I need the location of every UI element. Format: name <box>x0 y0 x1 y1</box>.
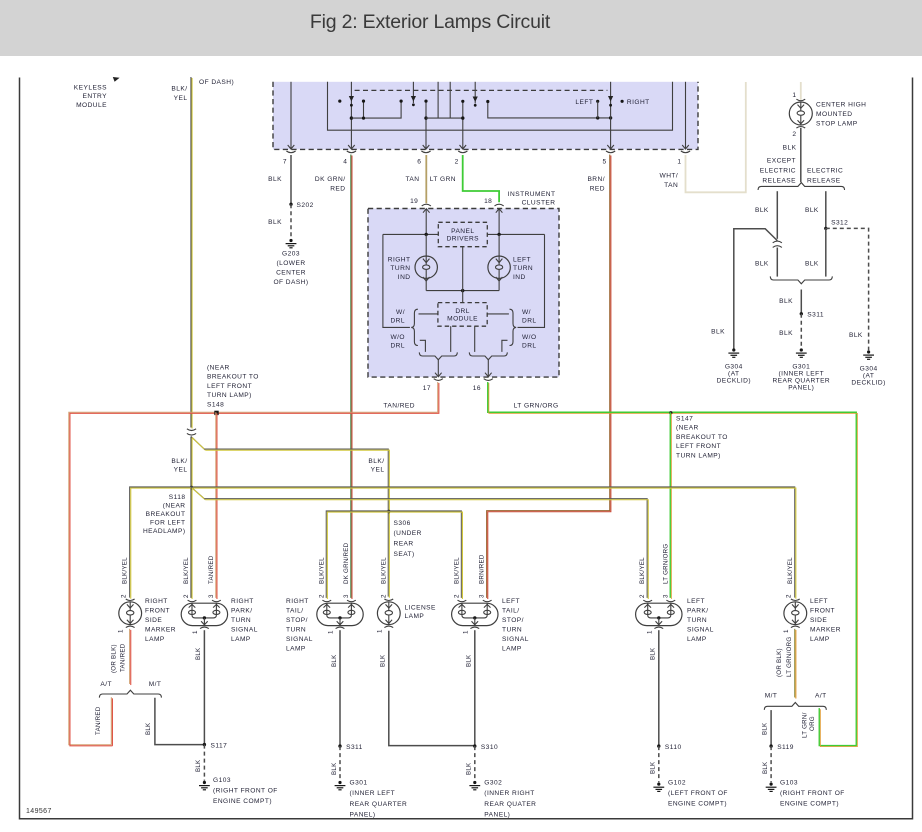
svg-text:HEADLAMP): HEADLAMP) <box>143 528 186 535</box>
svg-text:RIGHT: RIGHT <box>145 598 168 605</box>
svg-text:DRIVERS: DRIVERS <box>447 236 480 243</box>
wire BLK right park to S117 <box>203 630 205 744</box>
svg-text:REAR: REAR <box>394 541 414 548</box>
ground G301 <box>335 781 346 790</box>
svg-text:ORG: ORG <box>809 716 816 731</box>
svg-text:RED: RED <box>330 185 345 192</box>
wire BLK pin7 to S202 <box>290 155 292 204</box>
label BLK above G203 <box>268 219 282 226</box>
svg-text:REAR QUARTER: REAR QUARTER <box>772 377 830 384</box>
wire LT GRN pin2 to cluster pin18 <box>463 155 499 202</box>
S306 label <box>394 520 422 558</box>
svg-text:STOP/: STOP/ <box>502 617 524 624</box>
cluster pin 17 exit <box>434 373 443 381</box>
wire pin7 through box <box>290 82 292 149</box>
svg-text:BLK: BLK <box>268 219 282 226</box>
svg-text:PANEL): PANEL) <box>788 384 814 391</box>
svg-text:S147: S147 <box>676 416 693 423</box>
svg-text:G302: G302 <box>484 780 502 787</box>
ground G102 <box>653 783 664 792</box>
RIGHT FRONT SIDE MARKER label <box>145 598 176 643</box>
lamp LEFT PARK/TURN SIGNAL <box>636 600 682 628</box>
svg-text:ELECTRIC: ELECTRIC <box>760 168 796 175</box>
wire BLK/YEL keyless module down <box>190 77 192 428</box>
svg-text:SEAT): SEAT) <box>394 551 415 558</box>
svg-text:CLUSTER: CLUSTER <box>522 200 556 207</box>
title bar <box>0 0 922 56</box>
svg-text:BLK/YEL: BLK/YEL <box>183 557 190 584</box>
svg-text:TURN: TURN <box>513 265 533 272</box>
svg-text:BLK/: BLK/ <box>171 458 187 465</box>
LICENSE LAMP label <box>405 605 437 620</box>
svg-text:BREAKOUT: BREAKOUT <box>146 511 186 518</box>
svg-text:S202: S202 <box>297 202 314 209</box>
wire BLK dashed to G103 right <box>203 745 205 781</box>
svg-text:LEFT FRONT: LEFT FRONT <box>676 443 721 450</box>
interior stub arrow wire <box>474 82 476 104</box>
svg-text:CENTER HIGH: CENTER HIGH <box>816 102 866 109</box>
svg-text:SIDE: SIDE <box>145 617 162 624</box>
wire BLK dashed to G102 <box>658 746 660 782</box>
svg-text:1: 1 <box>463 630 470 634</box>
inner solid rectangle <box>328 82 673 130</box>
svg-text:TAN/RED: TAN/RED <box>208 555 215 584</box>
RIGHT node <box>621 100 624 103</box>
svg-text:BLK: BLK <box>195 759 202 772</box>
splice S117 <box>203 743 206 746</box>
svg-text:BRN/RED: BRN/RED <box>479 554 486 584</box>
svg-text:(UNDER: (UNDER <box>394 530 422 537</box>
svg-text:5: 5 <box>602 159 606 166</box>
svg-text:(RIGHT FRONT OF: (RIGHT FRONT OF <box>780 790 845 797</box>
S118 diagonal <box>191 487 204 499</box>
wire TAN/RED pin17 bus <box>69 382 438 745</box>
G304 tap wire <box>734 229 778 350</box>
svg-text:IND: IND <box>398 274 411 281</box>
svg-text:OF DASH): OF DASH) <box>199 79 234 86</box>
wire pin4 interior <box>350 82 352 149</box>
svg-text:(INNER RIGHT: (INNER RIGHT <box>484 790 534 797</box>
svg-text:(NEAR: (NEAR <box>676 425 699 432</box>
svg-text:S118: S118 <box>169 494 186 501</box>
svg-text:BLK: BLK <box>783 145 797 152</box>
cluster pin 16 exit <box>484 373 493 381</box>
release split brace <box>758 183 845 190</box>
svg-text:MODULE: MODULE <box>447 315 478 322</box>
svg-text:S310: S310 <box>481 744 498 751</box>
svg-text:3: 3 <box>208 594 215 598</box>
svg-text:TURN LAMP): TURN LAMP) <box>676 452 721 459</box>
splice S202 <box>289 203 292 206</box>
wire TAN/RED S148 branch to right park lamp <box>215 412 217 598</box>
svg-text:LAMP: LAMP <box>502 646 522 653</box>
svg-text:149567: 149567 <box>26 808 52 815</box>
panel drivers to DRL stub <box>462 247 464 303</box>
release merge brace <box>770 276 832 283</box>
wire LT GRN/ORG pin16 bus <box>488 382 857 746</box>
svg-text:S312: S312 <box>831 220 848 227</box>
A/T M/T split right side <box>99 690 161 697</box>
wire WHT/TAN to stop lamp <box>800 82 802 100</box>
DRL MODULE box <box>438 303 487 327</box>
S147 breakout label <box>676 416 728 460</box>
wire BLK M/T branch right <box>770 710 772 746</box>
svg-text:TURN: TURN <box>502 627 522 634</box>
wire BLK/YEL bus to license feed <box>204 449 388 597</box>
svg-text:FRONT: FRONT <box>145 608 170 615</box>
interior bus B2 <box>488 102 611 118</box>
wire LT GRN/ORG S147 branch to left park lamp <box>669 412 671 598</box>
EXCEPT ELECTRIC RELEASE label <box>760 158 796 185</box>
svg-text:2: 2 <box>792 131 796 138</box>
M/T A/T split left side <box>764 703 826 710</box>
svg-text:G102: G102 <box>668 780 686 787</box>
left option brace <box>411 309 418 345</box>
wire BLK except-release branch <box>776 191 778 239</box>
svg-text:3: 3 <box>662 594 669 598</box>
svg-text:BLK: BLK <box>849 332 863 339</box>
right turn ind feed <box>425 234 427 256</box>
svg-text:2: 2 <box>318 594 325 598</box>
svg-text:LICENSE: LICENSE <box>405 605 437 612</box>
RIGHT TURN IND lamp <box>415 256 437 281</box>
lamp CENTER HIGH MOUNTED STOP <box>789 99 812 128</box>
svg-text:BLK/YEL: BLK/YEL <box>787 557 794 584</box>
svg-text:LT GRN/ORG: LT GRN/ORG <box>514 402 559 409</box>
svg-text:PANEL): PANEL) <box>350 811 376 818</box>
label BLK/YEL mid <box>171 458 187 474</box>
svg-text:G203: G203 <box>282 251 300 258</box>
LEFT FRONT SIDE MARKER label <box>810 598 841 643</box>
svg-text:MARKER: MARKER <box>810 627 841 634</box>
label LT GRN <box>430 176 456 183</box>
svg-text:1: 1 <box>376 629 383 633</box>
lamp RIGHT FRONT SIDE MARKER <box>119 599 142 628</box>
cluster top bus <box>383 233 438 235</box>
svg-text:BLK/YEL: BLK/YEL <box>380 557 387 584</box>
svg-text:PARK/: PARK/ <box>231 608 253 615</box>
ground G304 right <box>863 350 874 359</box>
svg-text:2: 2 <box>121 594 128 598</box>
svg-text:DRL: DRL <box>522 318 537 325</box>
pin 17 stub <box>437 360 439 377</box>
svg-text:(OR BLK): (OR BLK) <box>110 644 117 673</box>
label BLK pin7 <box>268 176 282 183</box>
LEFT PARK/TURN label <box>687 598 714 643</box>
svg-text:RED: RED <box>590 185 605 192</box>
svg-text:YEL: YEL <box>174 95 188 102</box>
svg-text:TAN/RED: TAN/RED <box>383 402 415 409</box>
cluster pin19 shaft <box>425 210 427 235</box>
cluster pin 18 <box>495 204 504 213</box>
RIGHT TURN IND label <box>388 257 411 281</box>
svg-text:RIGHT: RIGHT <box>231 598 254 605</box>
svg-text:KEYLESS: KEYLESS <box>74 85 107 92</box>
wire BLK electric-release branch <box>825 191 827 228</box>
svg-text:CENTER: CENTER <box>276 270 306 277</box>
S118 breakout label <box>143 494 186 535</box>
svg-text:S148: S148 <box>207 401 224 408</box>
svg-text:BLK/: BLK/ <box>171 86 187 93</box>
wire BLK/YEL bus to left park lamp <box>204 499 647 598</box>
svg-text:LT GRN/ORG: LT GRN/ORG <box>662 544 669 584</box>
svg-text:2: 2 <box>639 594 646 598</box>
wire TAN/RED A/T branch <box>110 697 112 745</box>
svg-text:IND: IND <box>513 274 526 281</box>
svg-text:A/T: A/T <box>815 693 827 700</box>
wire pin5 interior <box>610 82 612 149</box>
wire LT GRN/ORG (OR BLK) below left marker <box>794 629 796 698</box>
junction block box (lavender dashed) <box>273 82 698 150</box>
wire WHT/TAN pin1 <box>686 82 746 192</box>
svg-text:REAR QUATER: REAR QUATER <box>484 801 536 808</box>
svg-text:ENGINE COMPT): ENGINE COMPT) <box>213 798 272 805</box>
svg-text:SIGNAL: SIGNAL <box>687 627 714 634</box>
svg-text:STOP/: STOP/ <box>286 617 308 624</box>
pin 5 exit <box>606 145 615 153</box>
interior bus B1 <box>426 117 463 119</box>
keyless arrow mark <box>113 77 120 82</box>
svg-text:TURN: TURN <box>390 265 410 272</box>
svg-text:TURN: TURN <box>231 617 251 624</box>
svg-text:PANEL): PANEL) <box>484 811 510 818</box>
svg-text:BLK: BLK <box>711 329 725 336</box>
svg-text:BLK/YEL: BLK/YEL <box>639 557 646 584</box>
LEFT TAIL/STOP label <box>502 598 529 653</box>
svg-text:BLK: BLK <box>755 261 769 268</box>
pin 16 stub <box>487 360 489 377</box>
splice S311 top <box>800 312 803 315</box>
svg-text:18: 18 <box>484 198 492 205</box>
svg-text:BLK: BLK <box>755 207 769 214</box>
wire BLK dashed to G301 rear <box>800 314 802 348</box>
svg-text:ENGINE COMPT): ENGINE COMPT) <box>780 801 839 808</box>
svg-text:BLK: BLK <box>650 761 657 774</box>
ground G103 left <box>766 783 777 792</box>
svg-text:MODULE: MODULE <box>76 102 107 109</box>
wire BLK/YEL S118 bus <box>130 487 795 598</box>
cluster pin18 shaft <box>498 210 500 235</box>
ground G304 left <box>728 348 739 357</box>
svg-text:TAIL/: TAIL/ <box>502 608 520 615</box>
svg-text:LAMP: LAMP <box>231 636 251 643</box>
label W/O DRL left <box>390 334 405 350</box>
svg-text:LAMP: LAMP <box>286 646 306 653</box>
pin 7 exit <box>286 145 295 153</box>
svg-text:(AT: (AT <box>863 372 874 379</box>
svg-text:LAMP: LAMP <box>405 613 425 620</box>
svg-text:W/O: W/O <box>522 334 537 341</box>
svg-text:1: 1 <box>647 630 654 634</box>
svg-text:BLK: BLK <box>331 762 338 775</box>
svg-text:EXCEPT: EXCEPT <box>767 158 796 165</box>
svg-text:LEFT: LEFT <box>502 598 520 605</box>
lamp LICENSE <box>377 599 400 628</box>
svg-text:PANEL: PANEL <box>451 228 474 235</box>
svg-text:WHT/: WHT/ <box>660 173 679 180</box>
label BRN/RED <box>587 176 605 192</box>
svg-text:TAN: TAN <box>664 182 678 189</box>
DRL MODULE text <box>447 308 478 323</box>
wire BLK dashed to G301 <box>339 746 341 781</box>
splice S312 <box>824 227 827 230</box>
svg-text:BLK: BLK <box>805 207 819 214</box>
svg-text:REAR QUARTER: REAR QUARTER <box>350 801 408 808</box>
right W/O DRL branch wire <box>502 340 508 352</box>
svg-text:G301: G301 <box>792 363 810 370</box>
label TAN <box>405 176 419 183</box>
splice S148 (square) <box>214 411 218 415</box>
wire pin6 interior <box>425 101 427 149</box>
svg-text:SIDE: SIDE <box>810 617 827 624</box>
svg-text:BLK/: BLK/ <box>368 458 384 465</box>
inner dashed line <box>355 89 608 91</box>
interior stub wire <box>412 82 414 103</box>
right turn ind out <box>425 278 427 290</box>
svg-text:2: 2 <box>380 594 387 598</box>
merge brace to pin 16 <box>469 352 507 359</box>
svg-text:1: 1 <box>118 629 125 633</box>
svg-text:BREAKOUT TO: BREAKOUT TO <box>207 374 259 381</box>
wire BLK merged <box>800 290 802 314</box>
label W/O DRL right <box>522 334 537 350</box>
pin 2 exit <box>458 145 467 153</box>
label WHT/TAN <box>660 173 679 190</box>
svg-text:2: 2 <box>453 594 460 598</box>
svg-text:LEFT: LEFT <box>513 257 531 264</box>
wire BLK dashed to G203 <box>290 204 292 238</box>
svg-text:BLK: BLK <box>466 762 473 775</box>
wire BLK/YEL S306 bus <box>326 511 461 598</box>
svg-text:LEFT FRONT: LEFT FRONT <box>207 383 252 390</box>
KEYLESS ENTRY MODULE label <box>74 85 107 109</box>
svg-text:6: 6 <box>417 159 421 166</box>
svg-text:LT GRN: LT GRN <box>430 176 456 183</box>
svg-text:MARKER: MARKER <box>145 627 176 634</box>
splice S110 <box>657 744 660 747</box>
svg-text:BLK: BLK <box>380 654 387 667</box>
svg-text:BLK: BLK <box>761 722 768 735</box>
wire TAN/RED (OR BLK) below right marker <box>129 629 131 684</box>
G302 label <box>484 780 536 819</box>
svg-text:1: 1 <box>792 92 796 99</box>
lamp LEFT TAIL/STOP/TURN <box>452 600 498 628</box>
left W/O DRL branch wire <box>420 340 426 352</box>
cluster right rail <box>518 234 545 327</box>
svg-text:TAN/RED: TAN/RED <box>95 706 102 735</box>
lamp LEFT FRONT SIDE MARKER <box>784 599 807 628</box>
svg-text:W/: W/ <box>522 309 531 316</box>
svg-text:SIGNAL: SIGNAL <box>231 627 258 634</box>
ground G103 right front <box>199 781 210 790</box>
connector in BLK/YEL near S148 <box>187 429 196 435</box>
svg-text:(NEAR: (NEAR <box>207 365 230 372</box>
svg-text:TURN: TURN <box>286 627 306 634</box>
RIGHT TAIL/STOP label <box>286 598 313 653</box>
svg-text:BLK: BLK <box>145 722 152 735</box>
ground G203 <box>286 239 297 248</box>
interior bus A <box>363 101 365 118</box>
svg-text:RIGHT: RIGHT <box>388 257 411 264</box>
pin 4 exit <box>347 145 356 153</box>
splice S147 <box>669 411 672 414</box>
CENTER HIGH MOUNTED STOP LAMP label <box>816 102 866 128</box>
svg-text:S311: S311 <box>807 312 824 319</box>
svg-text:SIGNAL: SIGNAL <box>502 636 529 643</box>
svg-text:RIGHT: RIGHT <box>286 598 309 605</box>
svg-text:DRL: DRL <box>455 308 470 315</box>
wire BLK left park to S110 <box>658 630 660 746</box>
left turn ind out <box>498 278 500 290</box>
svg-text:DECKLID): DECKLID) <box>851 379 885 386</box>
svg-text:TAN: TAN <box>405 176 419 183</box>
cluster left rail <box>383 234 410 327</box>
connector except-release <box>773 241 782 247</box>
svg-text:ENGINE COMPT): ENGINE COMPT) <box>668 801 727 808</box>
pin 1 exit <box>681 145 690 153</box>
svg-text:3: 3 <box>479 594 486 598</box>
svg-text:(AT: (AT <box>728 370 739 377</box>
wire pin2 interior <box>462 101 464 148</box>
svg-text:YEL: YEL <box>371 467 385 474</box>
wire BLK dashed S312 to G304 <box>826 228 869 350</box>
svg-text:LT GRN/: LT GRN/ <box>802 712 809 738</box>
svg-text:LT GRN/ORG: LT GRN/ORG <box>786 637 793 677</box>
S148 connector diagonal <box>191 436 204 449</box>
splice S310 <box>473 744 476 747</box>
svg-text:BLK/YEL: BLK/YEL <box>453 557 460 584</box>
splice S118 <box>190 486 193 489</box>
svg-text:(NEAR: (NEAR <box>163 502 186 509</box>
merge brace to pin 17 <box>419 352 457 359</box>
wire pin1 interior <box>685 82 687 149</box>
LEFT TURN IND label <box>513 257 533 281</box>
wire BLK electric-release to merge <box>825 228 827 276</box>
lamp RIGHT TAIL/STOP/TURN <box>317 600 363 628</box>
svg-text:BLK/YEL: BLK/YEL <box>122 557 129 584</box>
svg-text:G304: G304 <box>860 365 878 372</box>
wire BLK license to S310 <box>389 631 475 746</box>
svg-text:INSTRUMENT: INSTRUMENT <box>508 191 556 198</box>
svg-text:19: 19 <box>410 198 418 205</box>
svg-text:LAMP: LAMP <box>810 636 830 643</box>
svg-text:W/O: W/O <box>390 334 405 341</box>
pin 6 exit <box>421 145 430 153</box>
svg-text:2: 2 <box>183 594 190 598</box>
svg-text:BLK: BLK <box>650 647 657 660</box>
cluster mid bus <box>426 290 499 292</box>
wire BLK/YEL below connector <box>190 436 192 597</box>
svg-text:M/T: M/T <box>149 681 162 688</box>
PANEL DRIVERS box <box>438 222 487 246</box>
svg-text:DK GRN/RED: DK GRN/RED <box>343 542 350 584</box>
svg-text:RIGHT: RIGHT <box>627 99 650 106</box>
G304 right label <box>851 365 885 386</box>
LEFT TURN IND lamp <box>488 256 510 281</box>
svg-text:2: 2 <box>786 594 793 598</box>
svg-text:BLK/YEL: BLK/YEL <box>318 557 325 584</box>
splice S306 <box>387 510 390 513</box>
svg-text:MOUNTED: MOUNTED <box>816 111 852 118</box>
svg-text:1: 1 <box>192 630 199 634</box>
svg-text:LEFT: LEFT <box>575 99 593 106</box>
wire BRN/RED pin5 down <box>487 154 610 597</box>
svg-text:BLK: BLK <box>331 654 338 667</box>
cluster pin 19 <box>422 204 431 213</box>
svg-text:G304: G304 <box>725 363 743 370</box>
instrument cluster box <box>368 209 559 378</box>
svg-text:W/: W/ <box>396 309 405 316</box>
